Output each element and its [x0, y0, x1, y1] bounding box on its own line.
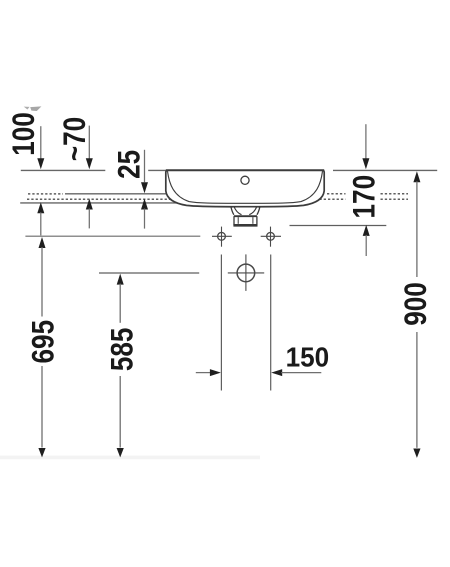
flange inner left [234, 207, 241, 215]
drain fitting [231, 207, 260, 226]
flange inner right [249, 207, 256, 215]
svg-text:25: 25 [112, 150, 147, 179]
union nut line [234, 215, 257, 217]
dimension 695 line [38, 237, 45, 457]
overflow hole [241, 176, 249, 184]
basin white fill [166, 169, 324, 207]
svg-text:585: 585 [105, 328, 140, 372]
tailpiece inner right [252, 217, 254, 224]
basin outer outline [166, 170, 324, 206]
dotted line row2 left (passes behind basin) [27, 198, 346, 200]
extension line right (150) [270, 255, 272, 391]
basin top edge [166, 169, 324, 171]
console top solid line [65, 193, 166, 195]
drain bottom reference line [290, 225, 387, 227]
dimension 150 right arrow [271, 369, 321, 376]
tailpiece bottom edge [233, 224, 257, 227]
dimension 585 line [117, 274, 124, 458]
dimension 900 line [413, 171, 420, 458]
svg-text:900: 900 [399, 282, 434, 326]
dimension 170 bottom arrow [363, 225, 370, 256]
svg-text:170: 170 [347, 175, 382, 219]
svg-text:695: 695 [26, 320, 61, 364]
dimension ~70 lower arrow [86, 199, 93, 229]
dotted line row1 right a [327, 193, 346, 195]
dimension 25 arrow [141, 150, 148, 193]
dimension 25 lower arrow [141, 199, 148, 229]
svg-text:150: 150 [286, 342, 330, 373]
rim line right segment [333, 169, 437, 171]
svg-text:100: 100 [7, 112, 42, 156]
flange outer right [257, 207, 260, 215]
tailpiece right edge [256, 216, 258, 225]
washbasin body (front view) [166, 169, 324, 207]
tailpiece left edge [233, 216, 235, 225]
wall line at rim-100 level [20, 202, 240, 204]
mirror corner smudge [24, 107, 30, 110]
siphon center reference line [99, 272, 199, 274]
dimension 100 lower arrow [37, 202, 44, 235]
basin inner bowl line [168, 171, 323, 203]
dotted line row1 left [28, 193, 63, 195]
flange outer left [231, 207, 234, 215]
dimension 100 arrow [37, 126, 44, 169]
fixing holes center line [25, 235, 200, 237]
tailpiece inner left [237, 217, 239, 224]
dimension 170 top arrow [362, 124, 369, 169]
fixing hole left [212, 227, 232, 247]
rim line left segment [21, 169, 106, 171]
fixing hole right [261, 227, 281, 247]
svg-text:~70: ~70 [58, 117, 93, 161]
rim line mid segment [148, 169, 166, 171]
dotted line row2 right [381, 198, 409, 200]
dotted line row1 right b [381, 193, 409, 195]
floor line [0, 456, 260, 460]
drain hole circle [228, 254, 264, 291]
dimension ~70 arrow [86, 126, 93, 170]
extension line left (150) [220, 255, 222, 391]
dimension 150 left arrow [196, 369, 221, 376]
